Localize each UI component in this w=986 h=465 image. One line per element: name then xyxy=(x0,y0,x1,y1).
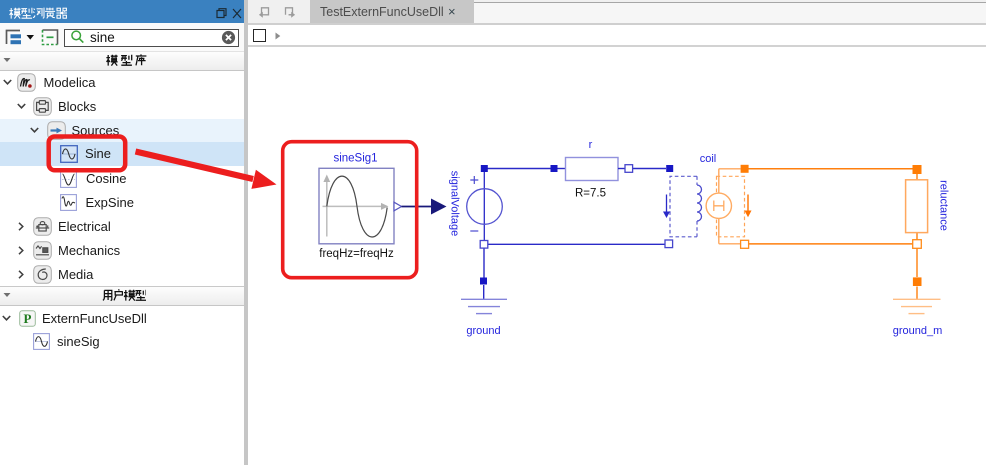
current direction arrow (blue) xyxy=(663,195,670,219)
row: sineSig xyxy=(33,333,50,350)
wire coil.port_p to reluctance.port_p xyxy=(749,168,913,170)
ground (electrical) xyxy=(461,299,507,313)
magnetic potential source circle with H xyxy=(706,169,740,244)
svg-text:reluctance: reluctance xyxy=(938,180,950,231)
node: reluctance.port_p (filled magnetic pin) xyxy=(913,165,922,174)
svg-text:coil: coil xyxy=(700,153,717,165)
row: Cosine xyxy=(60,171,77,188)
svg-text:ground_m: ground_m xyxy=(893,325,943,337)
wire signalVoltage.n to coil.n (bottom) xyxy=(488,243,665,245)
row: Mechanics xyxy=(18,246,24,255)
ground_m (magnetic ground) xyxy=(893,299,941,313)
svg-text:r: r xyxy=(589,139,593,151)
row: Sine xyxy=(60,145,78,163)
red annotation: box around Sine tree item xyxy=(49,137,126,171)
node: resistor r.n (open pin) xyxy=(625,165,633,173)
splitter xyxy=(244,0,248,465)
node: signalVoltage.n (open pin) xyxy=(480,241,488,249)
row: Modelica xyxy=(3,79,12,85)
output pin y of sineSig1 xyxy=(394,202,402,211)
svg-text:R=7.5: R=7.5 xyxy=(575,187,606,199)
模型库 header xyxy=(0,51,244,71)
wire coil.port_n to reluctance.port_n (bottom) xyxy=(749,243,913,245)
canvas xyxy=(248,47,986,465)
node: resistor r.p (filled pin) xyxy=(551,165,558,172)
search box xyxy=(64,29,239,47)
red annotation: box around sineSig1 block xyxy=(283,142,417,278)
svg-text:ground: ground xyxy=(466,325,500,337)
row: ExternFuncUseDll xyxy=(2,315,11,321)
svg-text:sineSig1: sineSig1 xyxy=(333,152,377,164)
用户模型 header xyxy=(0,286,244,306)
coil magnetic side dashed box xyxy=(717,176,745,237)
sine source block sineSig1 xyxy=(319,168,394,244)
node: signalVoltage.p (filled pin) xyxy=(481,165,488,172)
wire resistor right to pin xyxy=(618,168,625,170)
resistor r body xyxy=(566,158,619,181)
connection arrow sineSig1.y to signalVoltage.v xyxy=(402,199,447,215)
wire reluctance.port_n to ground_m.port xyxy=(916,249,918,278)
red annotation: arrow from Sine item to sineSig1 block xyxy=(136,152,277,189)
tree rows xyxy=(0,119,244,142)
reluctance body xyxy=(906,174,928,240)
wire signalVoltage.p to resistor r.p xyxy=(487,168,551,170)
node: coil.port_p (filled magnetic pin) xyxy=(741,165,749,173)
wire signalVoltage.n to ground.p xyxy=(483,249,485,278)
breadcrumb row xyxy=(248,25,986,45)
row: Blocks xyxy=(17,103,26,109)
node: coil.n (open pin) xyxy=(665,240,673,248)
node: coil.p (filled pin) xyxy=(666,165,673,172)
nav arrows xyxy=(256,6,298,20)
wire stub into resistor left xyxy=(557,168,566,170)
title bar xyxy=(0,0,244,23)
flux direction arrow (orange) xyxy=(745,195,752,218)
svg-text:signalVoltage: signalVoltage xyxy=(449,171,461,236)
wire resistor r.n to coil.p xyxy=(633,168,667,170)
node: coil.port_n (open magnetic pin) xyxy=(741,240,749,248)
node: ground_m pin (filled magnetic) xyxy=(913,277,922,286)
signalVoltage source xyxy=(467,172,503,241)
svg-text:freqHz=freqHz: freqHz=freqHz xyxy=(319,248,394,260)
toolbar row xyxy=(0,23,244,51)
row: Sources xyxy=(30,127,39,133)
node: reluctance.port_n (open magnetic pin) xyxy=(913,240,922,249)
node: ground pin (filled) xyxy=(480,278,487,285)
row: ExpSine xyxy=(60,194,77,211)
row: Electrical xyxy=(18,222,24,231)
row: Media xyxy=(18,270,24,279)
coil (electromagnetic converter) electric side dashed box xyxy=(670,176,697,237)
tab bar xyxy=(248,0,986,23)
hidden defs for CJK glyphs xyxy=(0,0,1,1)
coil inductor winding xyxy=(697,185,702,221)
